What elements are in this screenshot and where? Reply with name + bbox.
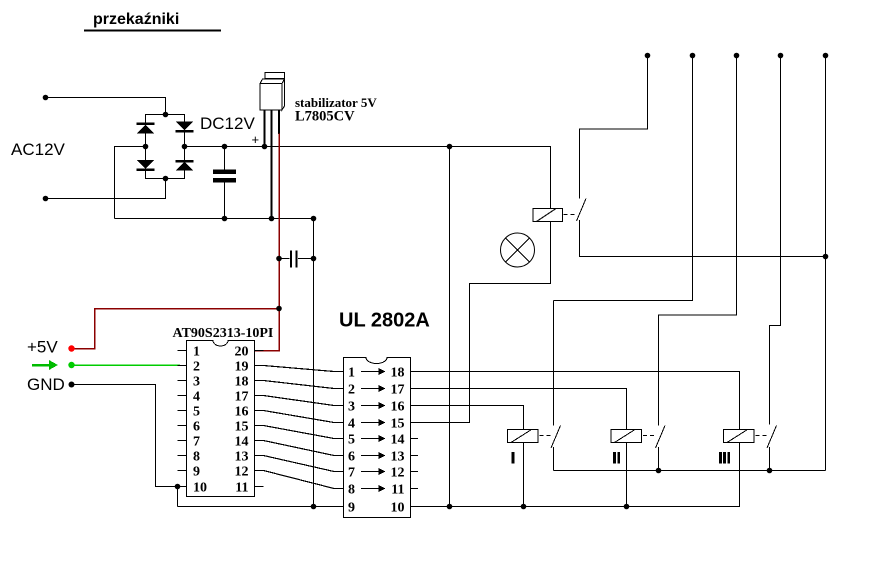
svg-text:5: 5	[348, 433, 355, 448]
pin 9 stub U2	[334, 506, 344, 508]
node common rail x449	[447, 504, 453, 510]
pin 11 stub U2	[411, 488, 419, 490]
arrow pin 5 to pin 14 U2	[361, 435, 386, 442]
svg-text:DC12V: DC12V	[200, 114, 255, 133]
wire pin 15 U1 to pin 5 U2	[264, 426, 335, 439]
diode D1 left-top	[137, 124, 155, 134]
svg-text:4: 4	[193, 390, 200, 405]
wire switch III to switch rail	[769, 447, 771, 471]
wire switch II to switch rail	[658, 447, 660, 471]
svg-text:12: 12	[391, 466, 405, 481]
regulator pin 2 ground	[271, 110, 273, 219]
regulator pin 1 input	[264, 110, 266, 147]
pin 14 stub U1	[255, 440, 264, 442]
relay II coil	[611, 430, 642, 443]
bridge rectifier outline	[146, 115, 185, 179]
terminal AC top	[43, 95, 49, 101]
svg-text:8: 8	[348, 483, 355, 498]
pin 2 stub U1	[178, 365, 187, 367]
IC U2 UL2802A body	[344, 358, 411, 518]
svg-text:AC12V: AC12V	[11, 140, 66, 159]
pin 8 stub U1	[178, 455, 187, 457]
svg-text:2: 2	[348, 383, 355, 398]
pin 3 stub U1	[178, 380, 187, 382]
wire pin15 U2 to relay K0 coil	[411, 222, 551, 423]
svg-text:6: 6	[348, 450, 355, 465]
svg-text:10: 10	[391, 501, 405, 516]
wire relay II coil to common rail	[626, 443, 628, 507]
svg-text:UL 2802A: UL 2802A	[339, 310, 430, 332]
wire pin17 U2 to relay II coil	[411, 389, 627, 430]
relay II linkage dashes	[643, 435, 656, 437]
pin 2 stub U2	[334, 388, 344, 390]
svg-text:AT90S2313-10PI: AT90S2313-10PI	[173, 326, 274, 341]
svg-text:20: 20	[235, 345, 249, 360]
arrow pin 3 to pin 16 U2	[361, 402, 386, 409]
svg-text:3: 3	[348, 400, 355, 415]
svg-text:8: 8	[193, 450, 200, 465]
wire T5 column	[825, 56, 827, 471]
wire +12V drop x449	[449, 147, 451, 507]
svg-text:1: 1	[348, 366, 355, 381]
svg-text:11: 11	[235, 481, 248, 496]
terminal T1	[645, 53, 651, 59]
wire pin 19 U1 to pin 1 U2	[264, 366, 335, 372]
wire +5V feed to label	[72, 309, 279, 349]
node C2 left	[276, 256, 282, 262]
wire pin 18 U1 to pin 2 U2	[264, 381, 335, 389]
svg-text:6: 6	[193, 420, 200, 435]
pin 17 stub U1	[255, 395, 264, 397]
node relay II on common rail	[624, 504, 630, 510]
svg-text:17: 17	[391, 383, 405, 398]
wire +12V rail	[185, 147, 551, 209]
svg-text:2: 2	[193, 360, 200, 375]
node C2 right	[311, 256, 317, 262]
terminal T2	[690, 53, 696, 59]
pin 4 stub U1	[178, 395, 187, 397]
relay I coil	[508, 430, 539, 443]
diode D3 right-top	[176, 122, 194, 132]
svg-text:+: +	[252, 132, 260, 147]
pin 8 stub U2	[334, 488, 344, 490]
arrow pin 2 to pin 17 U2	[361, 385, 386, 392]
wire relay I coil to common rail	[523, 443, 525, 507]
lamp L1	[501, 233, 535, 267]
node bridge right	[182, 144, 188, 150]
pin 5 stub U1	[178, 410, 187, 412]
wire pin 12 U1 to pin 8 U2	[264, 471, 335, 489]
wire switch rail	[554, 470, 826, 472]
wire GND rail	[115, 218, 314, 220]
diode D2 left-bottom	[137, 160, 155, 170]
wire pin 13 U1 to pin 7 U2	[264, 456, 335, 472]
pin 7 stub U2	[334, 471, 344, 473]
svg-text:14: 14	[235, 435, 249, 450]
wire +5V from regulator output	[278, 134, 280, 309]
wire switch K0 to T5 column	[580, 220, 826, 257]
svg-text:9: 9	[348, 501, 355, 516]
wire pin 17 U1 to pin 3 U2	[264, 396, 335, 406]
node bridge bottom	[163, 176, 169, 182]
node +5V junction	[276, 306, 282, 312]
wire T1 to switch K0	[580, 56, 648, 199]
node bottom rail x313	[311, 504, 317, 510]
switch III blade	[767, 426, 777, 449]
node regulator ground	[269, 216, 275, 222]
pin 9 stub U1	[178, 470, 187, 472]
svg-text:16: 16	[391, 400, 405, 415]
svg-text:L7805CV: L7805CV	[295, 109, 355, 125]
wire pin16 U2 to relay I coil	[411, 406, 524, 430]
wire pin18 U2 to relay III coil	[411, 372, 740, 430]
pin 3 stub U2	[334, 405, 344, 407]
node regulator input	[262, 144, 268, 150]
svg-text:GND: GND	[27, 375, 65, 394]
svg-text:16: 16	[235, 405, 249, 420]
node bridge top	[163, 112, 169, 118]
pin 16 stub U1	[255, 410, 264, 412]
pin 5 stub U2	[334, 438, 344, 440]
switch I blade	[551, 426, 561, 449]
svg-text:18: 18	[391, 366, 405, 381]
svg-text:14: 14	[391, 433, 405, 448]
svg-text:+5V: +5V	[27, 338, 58, 357]
wire pin10 to bottom rail	[177, 487, 179, 507]
pin 6 stub U1	[178, 425, 187, 427]
capacitor C1 filter	[213, 147, 236, 219]
node C1 top	[222, 144, 228, 150]
svg-text:18: 18	[235, 375, 249, 390]
wire green to pin 2	[72, 364, 181, 366]
terminal T4	[778, 53, 784, 59]
pin 13 stub U1	[255, 455, 264, 457]
wire switch I to switch rail	[553, 447, 555, 471]
arrow pin 1 to pin 18 U2	[361, 368, 386, 375]
node +12V rail x449	[447, 144, 453, 150]
svg-text:10: 10	[193, 481, 207, 496]
pin 14 stub U2	[411, 438, 419, 440]
pin 7 stub U1	[178, 440, 187, 442]
terminal T5	[823, 53, 829, 59]
node pin10 junction	[175, 484, 181, 490]
svg-text:4: 4	[348, 417, 355, 432]
svg-text:1: 1	[193, 345, 200, 360]
arrow pin 6 to pin 13 U2	[361, 452, 386, 459]
relay III coil	[724, 430, 755, 443]
wire +5V to pin 20	[255, 309, 279, 351]
svg-text:9: 9	[193, 465, 200, 480]
wire bridge left to GND rail	[115, 147, 146, 219]
node bridge left	[143, 144, 149, 150]
svg-text:5: 5	[193, 405, 200, 420]
title underline	[84, 30, 221, 32]
svg-text:11: 11	[391, 483, 404, 498]
terminal +5V	[68, 345, 74, 351]
svg-text:7: 7	[193, 435, 200, 450]
arrow pin 7 to pin 12 U2	[361, 468, 386, 475]
diode D4 right-bottom	[176, 161, 194, 171]
terminal T3	[734, 53, 740, 59]
svg-text:13: 13	[235, 450, 249, 465]
switch II blade	[656, 426, 666, 449]
pin 10 stub U1	[178, 486, 187, 488]
relay K0 coil	[533, 209, 563, 222]
switch K0 blade	[577, 199, 587, 222]
arrow pin 8 to pin 11 U2	[361, 485, 386, 492]
wire T2 to switch I	[554, 56, 693, 301]
wire GND drop x313	[313, 219, 315, 507]
label relay I	[511, 452, 514, 464]
terminal RX green	[68, 362, 74, 368]
regulator pin 3 output	[278, 110, 280, 134]
relay III linkage dashes	[756, 435, 769, 437]
svg-text:17: 17	[235, 390, 249, 405]
wire AC bottom to bridge	[46, 179, 166, 199]
svg-text:13: 13	[391, 450, 405, 465]
wire AC top to bridge	[46, 98, 166, 115]
svg-text:7: 7	[348, 466, 355, 481]
node C1 bottom	[222, 216, 228, 222]
svg-text:przekaźniki: przekaźniki	[93, 11, 179, 28]
pin 12 stub U1	[255, 470, 264, 472]
capacitor C2 decoupling	[279, 251, 314, 268]
label relay III	[719, 452, 730, 464]
pin 11 stub U1	[255, 486, 264, 488]
terminal GND	[69, 382, 75, 388]
svg-text:15: 15	[235, 420, 249, 435]
regulator U3 L7805CV package	[260, 73, 285, 111]
arrow RX green	[32, 360, 58, 370]
pin 19 stub U1	[255, 365, 264, 367]
node GND rail x313	[311, 216, 317, 222]
node switch III on switch rail	[767, 468, 773, 474]
relay I linkage dashes	[540, 435, 553, 437]
relay K0 linkage dashes	[564, 214, 578, 216]
svg-text:15: 15	[391, 417, 405, 432]
pin 6 stub U2	[334, 455, 344, 457]
node relay I on common rail	[521, 504, 527, 510]
pin 18 stub U1	[255, 380, 264, 382]
pin 1 stub U2	[334, 371, 344, 373]
svg-text:19: 19	[235, 360, 249, 375]
wire pin10 U2 common rail	[411, 443, 740, 507]
wire GND loop to pin 10	[72, 385, 178, 487]
pin 20 stub U1	[255, 350, 264, 352]
pin 13 stub U2	[411, 455, 419, 457]
svg-text:12: 12	[235, 465, 249, 480]
label relay II	[613, 452, 620, 464]
svg-text:3: 3	[193, 375, 200, 390]
node switch II on switch rail	[656, 468, 662, 474]
wire bottom GND rail	[178, 506, 344, 508]
node switch K0 on T5 column	[823, 254, 829, 260]
pin 4 stub U2	[334, 422, 344, 424]
arrow pin 4 to pin 15 U2	[361, 419, 386, 426]
pin 1 stub U1	[178, 350, 187, 352]
IC U1 AT90S2313 body	[187, 341, 255, 497]
wire pin 14 U1 to pin 6 U2	[264, 441, 335, 456]
wire T4 to switch III	[770, 56, 781, 425]
wire T3 to switch II	[659, 56, 737, 426]
pin 15 stub U1	[255, 425, 264, 427]
terminal AC bottom	[43, 196, 49, 202]
wire pin 16 U1 to pin 4 U2	[264, 411, 335, 423]
pin 12 stub U2	[411, 471, 419, 473]
